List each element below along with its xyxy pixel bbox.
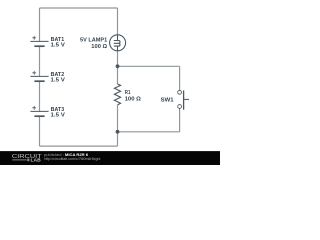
- svg-text:1.5 V: 1.5 V: [51, 113, 66, 119]
- svg-text:100 Ω: 100 Ω: [91, 44, 107, 50]
- svg-text:LAB: LAB: [31, 157, 41, 162]
- svg-text:R1: R1: [125, 90, 131, 96]
- svg-text:1.5 V: 1.5 V: [51, 43, 66, 49]
- svg-text:http://circuitlab.com/c/7t60m6: http://circuitlab.com/c/7t60m6r5cgrk: [44, 157, 100, 161]
- svg-text:1.5 V: 1.5 V: [51, 78, 66, 84]
- svg-text:SW1: SW1: [161, 97, 174, 103]
- svg-text:100 Ω: 100 Ω: [125, 97, 142, 103]
- svg-text:5V LAMP1: 5V LAMP1: [80, 38, 107, 44]
